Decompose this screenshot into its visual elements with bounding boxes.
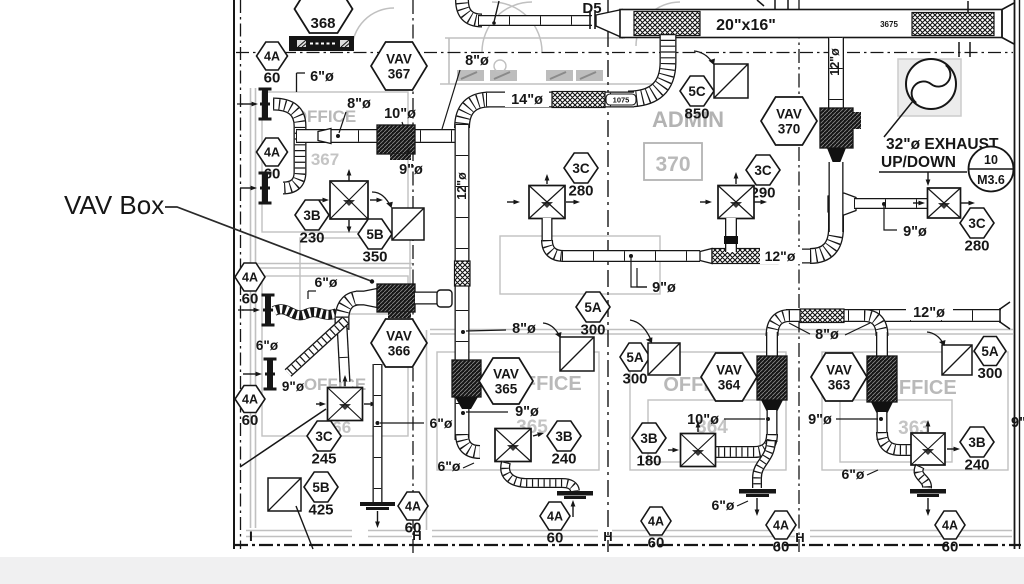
- bottom page strip: [0, 557, 1024, 584]
- diffuser tag 4A-60 office363: [935, 511, 965, 555]
- flange on centerline: [959, 42, 970, 57]
- svg-text:364: 364: [718, 378, 741, 393]
- VAV box tag 370: [761, 97, 817, 145]
- svg-text:3675: 3675: [880, 20, 898, 29]
- svg-text:4A: 4A: [264, 50, 280, 64]
- svg-text:I: I: [249, 528, 253, 544]
- sidewall register office367 lower: [259, 172, 272, 205]
- leader 8ø: [466, 330, 506, 331]
- svg-text:M3.6: M3.6: [977, 173, 1005, 187]
- svg-text:5A: 5A: [981, 344, 999, 359]
- 9ø duct to exhaust diffuser: [854, 198, 928, 209]
- sidewall register office366 upper: [262, 294, 275, 327]
- damper leader: [296, 506, 313, 549]
- flex connector on riser: [455, 261, 471, 286]
- elbow into diffuser office364: [716, 434, 772, 452]
- svg-text:12"ø: 12"ø: [913, 305, 945, 321]
- svg-text:350: 350: [362, 248, 387, 265]
- duct end cap office364: [739, 489, 776, 494]
- svg-text:VAV: VAV: [826, 363, 852, 378]
- VAV box serving admin 370: [820, 108, 853, 148]
- label 9&quot;ø with leader: [404, 147, 411, 159]
- acoustic lined section 2: [912, 13, 994, 36]
- svg-text:280: 280: [964, 237, 989, 254]
- ceiling diffuser admin west: [529, 186, 565, 219]
- svg-text:60: 60: [264, 165, 281, 182]
- svg-text:370: 370: [655, 153, 690, 176]
- svg-text:H: H: [795, 530, 804, 545]
- label 8&quot;ø (riser) with leader: [442, 70, 460, 129]
- offset duct office365: [505, 462, 575, 491]
- svg-text:370: 370: [778, 122, 801, 137]
- diffuser tag 4A-60 second: [257, 138, 288, 182]
- svg-text:60: 60: [773, 538, 790, 555]
- diffuser tag 3C-280 admin: [564, 153, 598, 199]
- svg-text:365: 365: [495, 382, 518, 397]
- svg-text:VAV: VAV: [386, 329, 412, 344]
- ceiling damper office365: [560, 337, 594, 371]
- diffuser arrow left: [319, 198, 329, 203]
- duct end cap office366: [360, 502, 395, 506]
- svg-text:20"x16": 20"x16": [716, 17, 776, 34]
- transition to 9ø: [828, 193, 856, 215]
- duct elbow office366: [342, 298, 360, 330]
- duct end cap office365: [557, 491, 593, 496]
- svg-text:6"ø: 6"ø: [842, 466, 865, 482]
- svg-text:60: 60: [942, 538, 959, 555]
- svg-text:5B: 5B: [312, 480, 330, 495]
- svg-text:VAV: VAV: [493, 367, 519, 382]
- svg-text:12"ø: 12"ø: [828, 48, 842, 76]
- main supply duct 20x16: [620, 10, 1002, 38]
- svg-text:240: 240: [551, 450, 576, 467]
- damper tag 5A-300 office365: [576, 292, 610, 338]
- svg-text:5A: 5A: [626, 350, 644, 365]
- svg-text:9"ø: 9"ø: [399, 162, 423, 178]
- label 8&quot;ø with leader: [339, 112, 346, 133]
- svg-text:300: 300: [977, 365, 1002, 382]
- bottom wall band (gray): [246, 531, 352, 537]
- airflow arrow down office363: [926, 498, 931, 516]
- inline fitting: [437, 290, 452, 307]
- svg-text:3B: 3B: [968, 435, 986, 450]
- 12ø label on run: [906, 303, 953, 320]
- leader through duct: [494, 1, 499, 22]
- flex section offices east: [800, 309, 844, 323]
- svg-text:3C: 3C: [968, 216, 986, 231]
- ceiling damper office363: [942, 345, 972, 375]
- svg-text:3C: 3C: [754, 163, 772, 178]
- 8ø/12ø run offices east: [786, 309, 1001, 322]
- grid line D: [798, 0, 800, 552]
- svg-text:850: 850: [684, 105, 709, 122]
- volume damper office367: [392, 208, 424, 240]
- diffuser arrow up: [347, 169, 352, 181]
- svg-text:4A: 4A: [242, 393, 258, 407]
- drawing border right: [1014, 0, 1016, 549]
- duct drop office366 bottom: [373, 364, 383, 503]
- offset duct office364: [757, 440, 771, 488]
- ceiling diffuser office365: [495, 429, 531, 462]
- svg-text:280: 280: [568, 182, 593, 199]
- svg-text:9"ø: 9"ø: [652, 280, 676, 296]
- damper arc arrow: [372, 192, 390, 205]
- diffuser tag 4A-60 office364a: [641, 507, 671, 551]
- 9ø label top office364: [637, 268, 647, 287]
- transition cone: [318, 129, 331, 144]
- transition cone office366: [362, 289, 377, 308]
- svg-text:8"ø: 8"ø: [347, 96, 371, 112]
- svg-text:H: H: [603, 529, 612, 544]
- transition cone admin: [700, 249, 712, 264]
- svg-text:10"ø: 10"ø: [384, 106, 416, 122]
- svg-text:4A: 4A: [242, 271, 258, 285]
- VAV box tag 366: [371, 319, 427, 367]
- diffuser arrow down: [347, 220, 352, 233]
- VAV box serving office 367: [377, 125, 415, 154]
- svg-text:10"ø: 10"ø: [687, 412, 719, 428]
- svg-text:6"ø: 6"ø: [712, 497, 735, 513]
- VAV box serving office 365: [452, 360, 481, 397]
- svg-text:60: 60: [648, 534, 665, 551]
- diffuser tag 3C-245: [307, 421, 341, 467]
- diffuser tag 3C-290 admin: [746, 155, 780, 201]
- ceiling damper admin: [714, 64, 748, 98]
- exhaust grille: [928, 188, 961, 218]
- svg-text:6"ø: 6"ø: [256, 338, 279, 353]
- VAV box tag 365: [479, 358, 533, 404]
- label 10&quot;ø with leader: [402, 122, 405, 131]
- damper tag 5A-300 office364: [620, 343, 650, 387]
- sheet reference bubble 10/M3.6: [969, 147, 1014, 192]
- ceiling diffuser office367: [330, 181, 368, 219]
- bottom border dash-dot: [234, 544, 1021, 546]
- exhaust fan symbol: [906, 59, 956, 109]
- ceiling diffuser office366: [328, 388, 363, 421]
- elbow down to VAV364: [772, 316, 790, 337]
- ceiling diffuser office364: [681, 434, 716, 467]
- elbow 20x16 to 14ø run: [628, 34, 668, 99]
- diffuser tag 3B-240 office363: [960, 427, 994, 473]
- svg-text:367: 367: [311, 150, 339, 169]
- grid line C: [607, 0, 609, 552]
- 14ø label: [505, 91, 549, 107]
- svg-text:6"ø: 6"ø: [315, 274, 338, 290]
- svg-text:363: 363: [828, 378, 851, 393]
- flex section on 14ø: [552, 92, 605, 108]
- exhaust leader + label: [884, 101, 913, 137]
- svg-text:1075: 1075: [613, 96, 630, 105]
- diffuser arrow right: [370, 198, 383, 203]
- diffuser tag 4A-60 office364b: [766, 511, 796, 555]
- diffuser tag 4A-60 top-left: [257, 42, 288, 86]
- VAV box serving office 366 (callout target): [377, 284, 415, 312]
- diffuser tag 4A-60 office365: [540, 502, 570, 546]
- 14ø riser segment: [828, 200, 844, 232]
- volume damper office366: [268, 478, 301, 511]
- grid line B: [412, 0, 414, 556]
- svg-text:6"ø: 6"ø: [438, 458, 461, 474]
- svg-text:VAV Box: VAV Box: [64, 190, 164, 220]
- diffuser tag 4A-60 mid-left: [235, 263, 265, 307]
- duct above VAV363: [876, 332, 888, 360]
- acoustic lined section 1: [634, 12, 700, 36]
- svg-text:60: 60: [547, 529, 564, 546]
- duct below VAV364: [767, 410, 778, 442]
- damper tag 5B-425: [304, 472, 338, 518]
- svg-text:8"ø: 8"ø: [512, 321, 536, 337]
- 9ø label admin: [631, 258, 647, 287]
- svg-text:60: 60: [242, 412, 259, 429]
- leader 10ø: [724, 418, 765, 420]
- flex section on 12ø admin: [712, 249, 778, 264]
- diffuser drop admin west: [542, 218, 553, 242]
- offset duct office363: [918, 466, 927, 488]
- diffuser tag 4A-60 lower-left: [235, 386, 265, 429]
- svg-text:9"ø: 9"ø: [903, 224, 927, 240]
- elbow up to 14ø riser: [810, 228, 836, 256]
- VAV box serving office 363: [867, 356, 897, 402]
- linear slot diffuser (black bar): [289, 36, 354, 51]
- transition cone to 20x16: [596, 10, 622, 38]
- elbow 14ø to riser: [462, 100, 490, 129]
- svg-text:366: 366: [388, 344, 411, 359]
- duct end cap office363: [910, 489, 946, 494]
- svg-text:240: 240: [964, 456, 989, 473]
- svg-text:9"ø: 9"ø: [808, 412, 832, 428]
- branch duct to register office366: [288, 320, 346, 373]
- svg-text:4A: 4A: [648, 515, 664, 529]
- leader to diffuser: [240, 409, 326, 467]
- 12ø duct admin east: [778, 249, 814, 264]
- svg-text:14"ø: 14"ø: [511, 92, 543, 108]
- duct drop to diffuser office366: [342, 326, 345, 382]
- drawing border left: [233, 0, 235, 549]
- ceiling diffuser admin east: [718, 186, 754, 219]
- room walls (gray underlay): [250, 88, 252, 528]
- 12ø riser duct: [455, 124, 470, 440]
- airflow arrow down office364: [755, 498, 760, 516]
- horizontal centerline: [236, 52, 1013, 54]
- 12ø drop from 20x16: [828, 37, 844, 110]
- diffuser tag 3B-180: [632, 423, 666, 469]
- svg-text:4A: 4A: [547, 510, 563, 524]
- diffuser tag 3C-280 east: [960, 208, 994, 254]
- svg-text:6"ø: 6"ø: [430, 415, 453, 431]
- svg-text:4A: 4A: [942, 519, 958, 533]
- cone below admin VAV: [827, 148, 846, 163]
- diffuser drop admin east: [725, 218, 737, 252]
- svg-text:60: 60: [242, 290, 259, 307]
- svg-text:9"ø: 9"ø: [1011, 415, 1024, 431]
- VAV box tag 367: [371, 42, 427, 90]
- elbow at top edge: [462, 0, 482, 21]
- leader 6ø: [380, 422, 424, 424]
- 1075 note tag: [606, 94, 636, 105]
- svg-text:5A: 5A: [584, 300, 602, 315]
- sidewall register office367 upper: [259, 88, 272, 121]
- airflow arrow down: [375, 511, 380, 528]
- svg-text:60: 60: [405, 519, 422, 536]
- elbow into diffuser office365: [462, 434, 480, 452]
- room inner outlines (gray): [262, 92, 1008, 470]
- diffuser tag 3B-240 office365: [547, 421, 581, 467]
- callout leader line: [165, 207, 371, 281]
- door arcs (gray): [352, 2, 680, 52]
- svg-text:4A: 4A: [264, 146, 280, 160]
- VAV box tag 364: [701, 353, 757, 401]
- svg-text:12"ø: 12"ø: [455, 172, 469, 200]
- VAV box tag 363: [811, 353, 867, 401]
- svg-text:3C: 3C: [572, 161, 590, 176]
- svg-text:180: 180: [636, 452, 661, 469]
- flex duct to register: [274, 309, 337, 315]
- svg-text:9"ø: 9"ø: [282, 379, 305, 394]
- svg-text:5C: 5C: [688, 84, 706, 99]
- airflow arrow up: [571, 500, 576, 517]
- transition cone below VAV 365: [455, 397, 478, 409]
- svg-text:VAV: VAV: [716, 363, 742, 378]
- 14ø duct run: [486, 92, 634, 108]
- svg-text:367: 367: [388, 67, 411, 82]
- svg-text:VAV: VAV: [776, 107, 802, 122]
- svg-text:8"ø: 8"ø: [815, 327, 839, 343]
- exhaust fan backdrop (gray): [898, 59, 961, 116]
- svg-text:3B: 3B: [555, 429, 573, 444]
- duct VAV366 outlet: [415, 292, 437, 305]
- svg-text:12"ø: 12"ø: [765, 248, 796, 264]
- duct elbow run office367: [273, 104, 300, 188]
- 9ø duct admin: [562, 250, 700, 262]
- duct below VAV363: [877, 412, 888, 440]
- svg-text:368: 368: [310, 15, 335, 32]
- svg-text:8"ø: 8"ø: [465, 53, 489, 69]
- diffuser tag 5C-850: [680, 76, 714, 122]
- sidewall register office366 lower: [264, 358, 277, 391]
- elbow admin west: [547, 240, 564, 256]
- svg-text:3B: 3B: [640, 431, 658, 446]
- flange ticks on main duct: [757, 0, 968, 12]
- thermostat tag 368 (truncated hexagon): [295, 0, 353, 33]
- svg-text:4A: 4A: [773, 519, 789, 533]
- svg-text:60: 60: [264, 69, 281, 86]
- svg-text:5B: 5B: [366, 227, 384, 242]
- svg-text:230: 230: [299, 229, 324, 246]
- 8ø duct to D5: [478, 15, 592, 26]
- diffuser tag 3B-230: [295, 200, 329, 246]
- svg-text:425: 425: [308, 501, 333, 518]
- VAV box serving office 364: [757, 356, 787, 400]
- svg-text:6"ø: 6"ø: [310, 69, 334, 85]
- desks (gray): [457, 70, 484, 81]
- transition flange: [589, 12, 591, 29]
- elbow into diffuser office363: [882, 432, 912, 450]
- diffuser tag 4A-60 office366: [398, 492, 428, 536]
- main 8ø horizontal run office367: [296, 129, 456, 143]
- leader 9ø office363: [836, 418, 878, 420]
- svg-text:300: 300: [580, 321, 605, 338]
- elbow down to VAV363: [864, 316, 882, 337]
- svg-text:300: 300: [622, 370, 647, 387]
- svg-text:3B: 3B: [303, 208, 321, 223]
- ceiling diffuser office363: [911, 433, 945, 465]
- svg-text:10: 10: [984, 153, 998, 167]
- diffuser tag 5B-350: [358, 219, 392, 265]
- svg-text:4A: 4A: [405, 500, 421, 514]
- duct above VAV364: [766, 332, 778, 360]
- svg-text:3C: 3C: [315, 429, 333, 444]
- run end flare: [1000, 302, 1010, 329]
- register arrow: [241, 102, 258, 107]
- svg-text:UP/DOWN: UP/DOWN: [881, 154, 956, 171]
- ceiling damper office364: [648, 343, 680, 375]
- svg-text:9"ø: 9"ø: [515, 404, 539, 420]
- leader 9ø: [466, 411, 508, 413]
- damper tag 5A-300 office363: [974, 337, 1006, 382]
- 14ø duct below VAV370: [829, 162, 844, 232]
- svg-text:VAV: VAV: [386, 52, 412, 67]
- svg-text:245: 245: [311, 450, 336, 467]
- duct end flare: [1002, 3, 1014, 44]
